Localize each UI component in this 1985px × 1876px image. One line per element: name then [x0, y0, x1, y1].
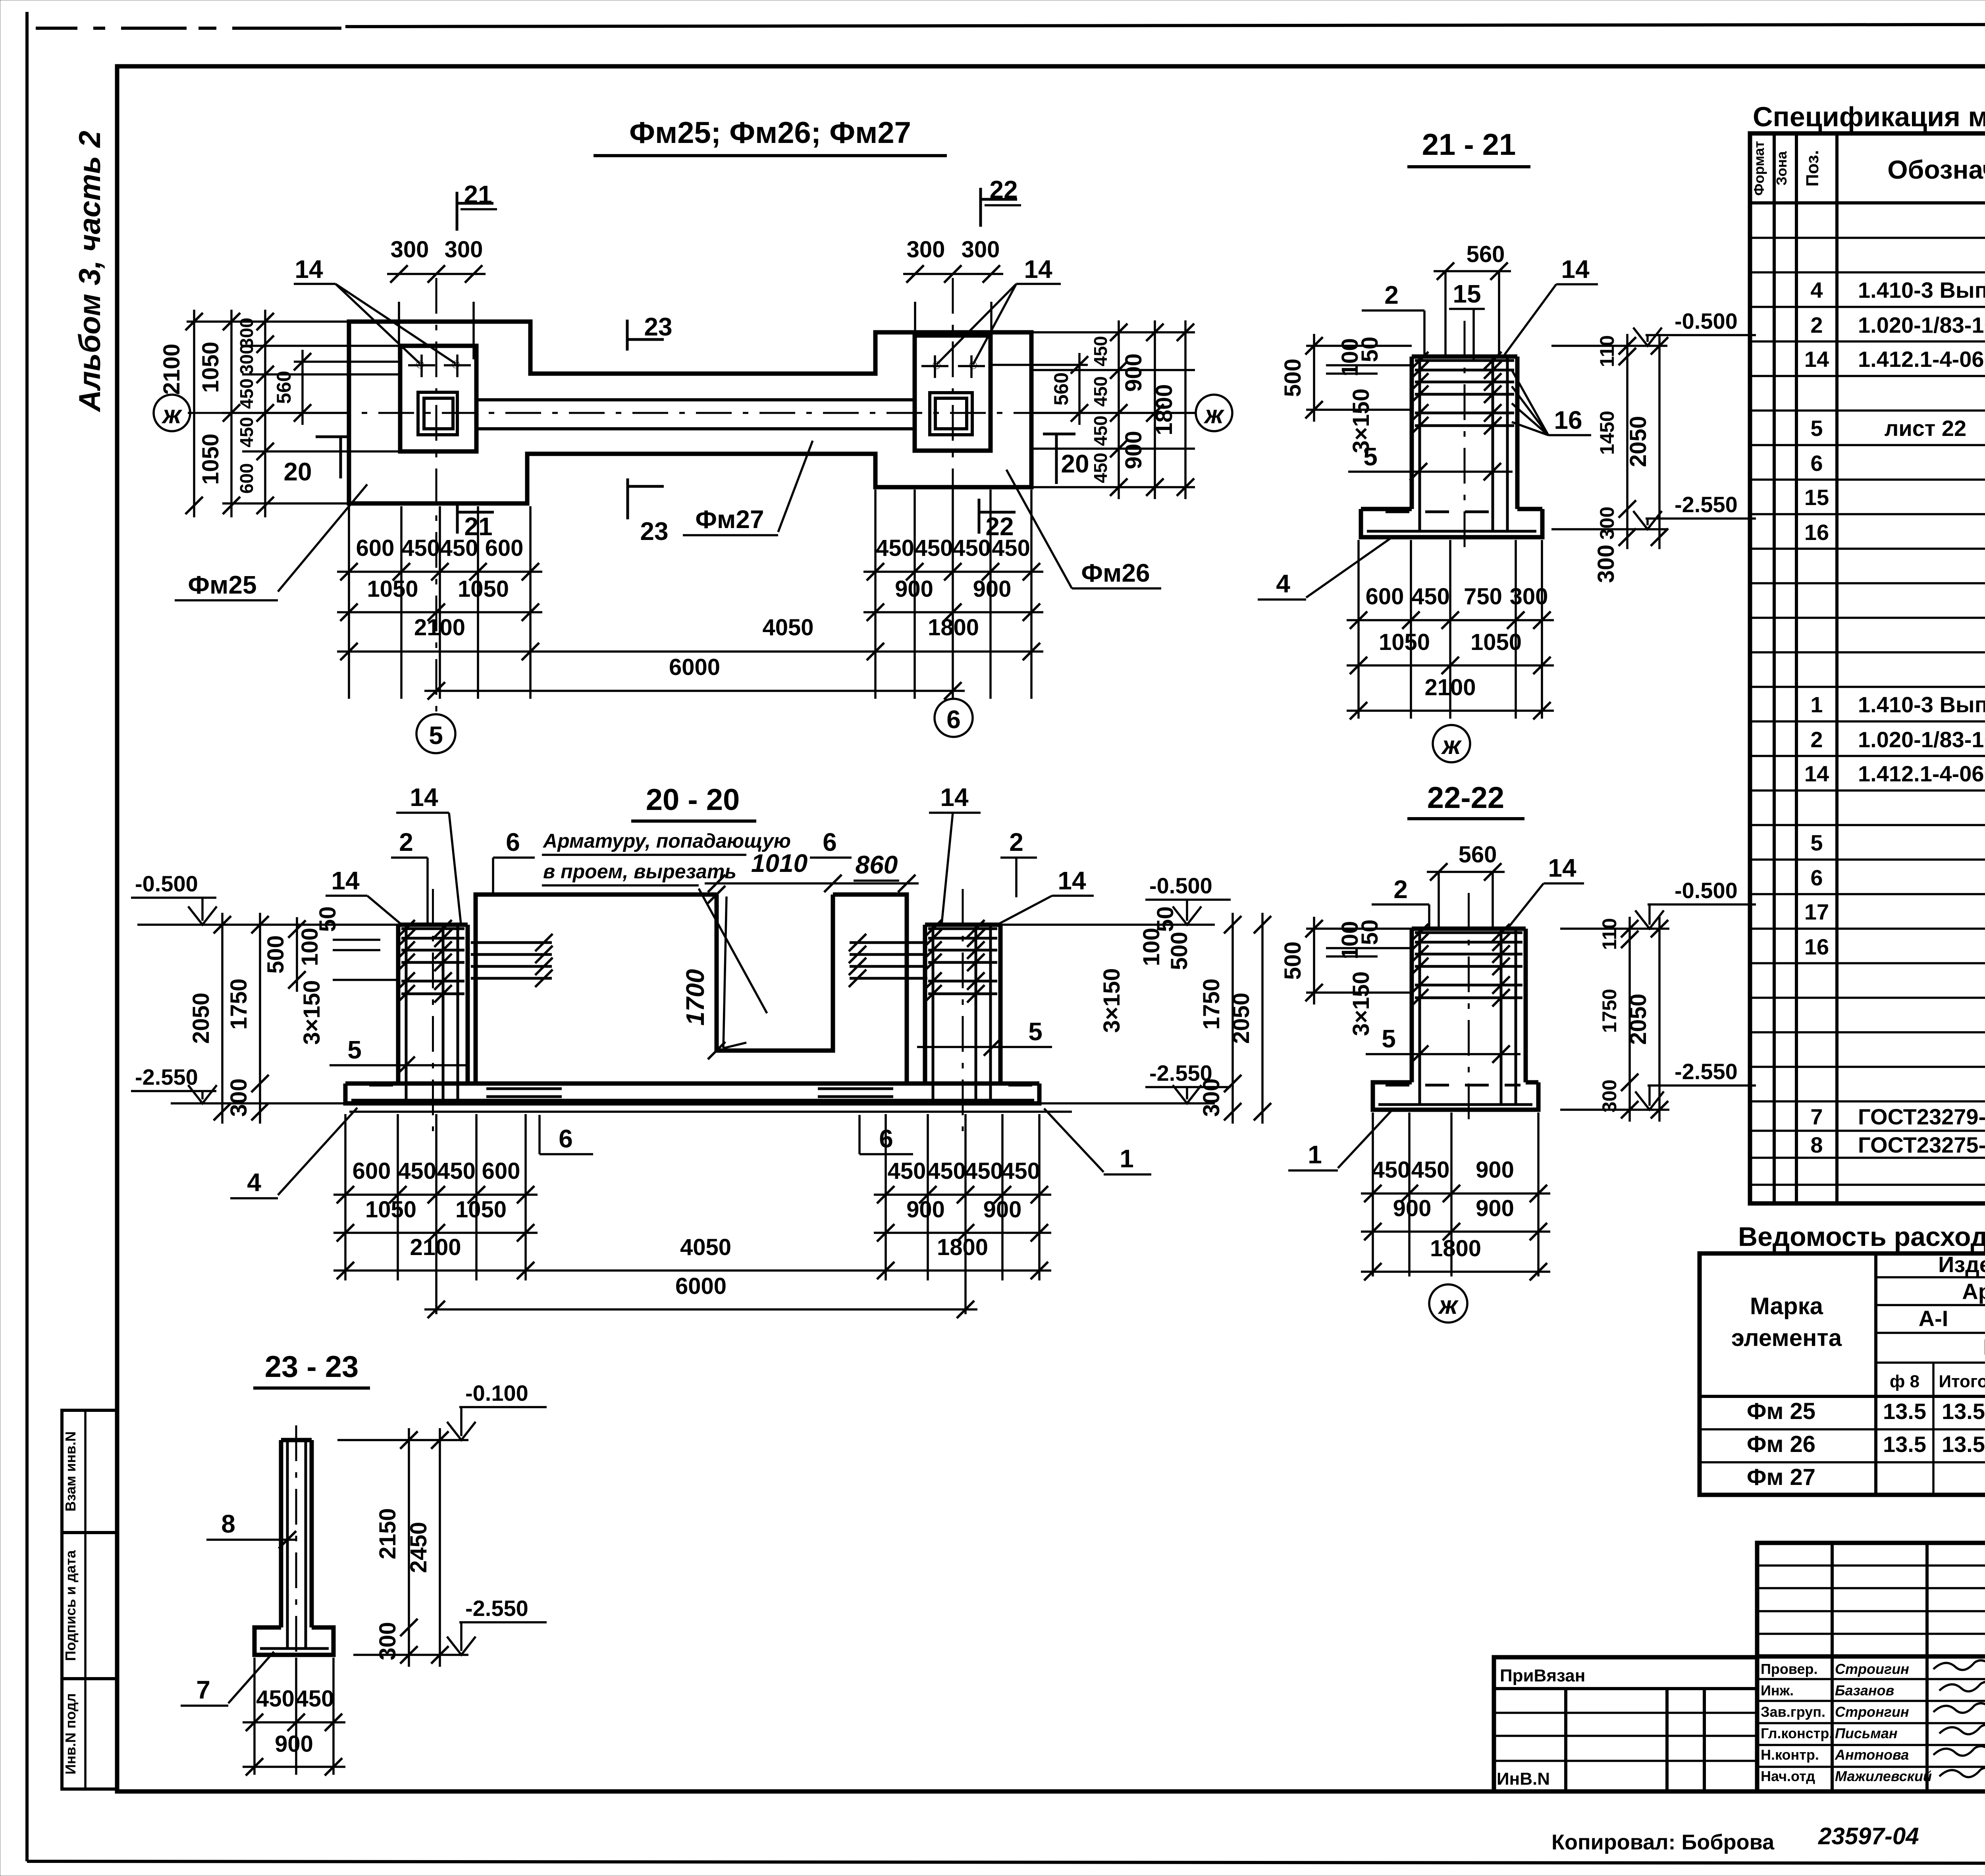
- 20-20 rebar bars into wall right: [850, 941, 927, 944]
- svg-text:ф 8: ф 8: [1890, 1372, 1919, 1391]
- svg-text:450: 450: [236, 417, 257, 447]
- plan: right vertical dimension chains: [1032, 331, 1195, 334]
- privyazan box: [1494, 1657, 1757, 1791]
- svg-text:А-I: А-I: [1919, 1306, 1948, 1331]
- svg-text:Н.контр.: Н.контр.: [1761, 1747, 1819, 1763]
- svg-text:1: 1: [1308, 1140, 1322, 1169]
- svg-text:450: 450: [1002, 1158, 1040, 1184]
- svg-text:1050: 1050: [455, 1197, 507, 1222]
- svg-text:1750: 1750: [1598, 989, 1621, 1033]
- svg-text:7: 7: [1810, 1104, 1823, 1129]
- svg-text:лист 22: лист 22: [1885, 416, 1966, 441]
- svg-text:600: 600: [485, 535, 524, 561]
- svg-text:23 - 23: 23 - 23: [265, 1350, 359, 1384]
- svg-text:Фм26: Фм26: [1081, 559, 1150, 587]
- svg-text:ж: ж: [1441, 731, 1462, 760]
- 20-20 left small dims: [333, 939, 380, 941]
- svg-text:Строигин: Строигин: [1835, 1661, 1909, 1677]
- svg-text:900: 900: [275, 1731, 313, 1757]
- plan: crosses right pedestal: [921, 365, 948, 367]
- svg-text:6: 6: [559, 1124, 573, 1153]
- plan: small crosses on left pedestal: [408, 364, 435, 366]
- svg-text:13.5: 13.5: [1883, 1432, 1926, 1457]
- svg-text:ГОСТ 5781-82: ГОСТ 5781-82: [1983, 1334, 1985, 1359]
- 22-22 level -2.550: [1560, 1109, 1669, 1111]
- svg-text:2: 2: [1810, 727, 1823, 752]
- plan: section mark 22 top: [979, 188, 982, 227]
- svg-text:Спецификация монолитных фундам: Спецификация монолитных фундаментов Фм25…: [1753, 101, 1985, 132]
- plan: 560 dim right: [992, 364, 1088, 366]
- svg-text:3×150: 3×150: [1348, 972, 1374, 1036]
- svg-text:Зона: Зона: [1773, 151, 1790, 185]
- svg-text:Фм25; Фм26; Фм27: Фм25; Фм26; Фм27: [629, 116, 911, 150]
- svg-text:300: 300: [391, 237, 429, 262]
- vedomost table frame: [1700, 1253, 1985, 1495]
- 21-21 axis circle Zh: [1433, 725, 1470, 762]
- svg-text:900: 900: [1476, 1157, 1514, 1183]
- svg-text:-2.550: -2.550: [1675, 1059, 1738, 1084]
- svg-text:-0.500: -0.500: [1675, 878, 1738, 903]
- svg-text:Базанов: Базанов: [1835, 1682, 1894, 1699]
- svg-text:20: 20: [283, 457, 312, 486]
- svg-text:14: 14: [1804, 347, 1829, 372]
- svg-text:4050: 4050: [762, 615, 813, 640]
- title block vertical lines left part: [1831, 1543, 1834, 1791]
- svg-text:1050: 1050: [198, 341, 224, 393]
- 22-22 level -0.500: [1560, 927, 1669, 930]
- svg-text:Фм 27: Фм 27: [1747, 1464, 1815, 1490]
- svg-text:1050: 1050: [365, 1197, 416, 1222]
- svg-text:21: 21: [464, 180, 492, 209]
- 20-20 note leader into opening: [699, 889, 767, 1013]
- svg-text:860: 860: [856, 850, 898, 879]
- svg-text:Формат: Формат: [1751, 141, 1767, 196]
- svg-text:300: 300: [236, 318, 257, 348]
- sheet outer border left: [25, 12, 29, 1861]
- svg-text:13.5: 13.5: [1942, 1432, 1985, 1457]
- svg-text:6: 6: [946, 705, 961, 734]
- svg-text:50: 50: [315, 906, 341, 932]
- svg-text:600: 600: [236, 463, 257, 494]
- svg-text:560: 560: [1467, 241, 1505, 267]
- svg-text:ИнВ.N: ИнВ.N: [1497, 1769, 1550, 1789]
- svg-text:100: 100: [297, 928, 323, 966]
- svg-text:14: 14: [295, 255, 323, 283]
- svg-text:560: 560: [1050, 372, 1072, 405]
- plan: vertical axis 6: [952, 278, 954, 699]
- svg-text:14: 14: [331, 866, 360, 895]
- svg-text:16: 16: [1804, 934, 1829, 959]
- svg-text:900: 900: [1393, 1195, 1432, 1221]
- svg-text:22-22: 22-22: [1427, 781, 1504, 815]
- svg-text:1700: 1700: [681, 969, 709, 1026]
- plan: section mark 20 right: [1043, 433, 1075, 436]
- svg-text:5: 5: [1810, 416, 1823, 441]
- svg-text:15: 15: [1453, 280, 1481, 308]
- svg-text:Антонова: Антонова: [1835, 1747, 1909, 1763]
- 20-20 label 6 bottom right: [858, 1115, 861, 1154]
- svg-text:17: 17: [1804, 899, 1829, 924]
- plan: 2100/4050/1800 chain: [337, 650, 1043, 653]
- svg-text:Взам инв.N: Взам инв.N: [62, 1431, 79, 1512]
- 20-20 level -0.500 right: [1000, 924, 1215, 926]
- svg-text:450: 450: [965, 1158, 1003, 1184]
- 23-23 level -0.100: [337, 1439, 468, 1441]
- svg-text:50: 50: [1357, 920, 1383, 945]
- svg-text:14: 14: [1804, 761, 1829, 786]
- svg-text:450: 450: [927, 1158, 966, 1184]
- plan: section mark 21 bottom: [456, 502, 459, 534]
- plan: 560 dim left: [294, 361, 401, 363]
- svg-text:20 - 20: 20 - 20: [646, 783, 740, 817]
- svg-text:300: 300: [962, 237, 1000, 262]
- svg-text:900: 900: [983, 1197, 1022, 1222]
- svg-text:22: 22: [989, 175, 1018, 204]
- svg-text:2: 2: [1810, 312, 1823, 337]
- svg-text:500: 500: [263, 935, 289, 974]
- svg-text:23597-04: 23597-04: [1818, 1823, 1919, 1849]
- 20-20 level -2.550 right: [1039, 1102, 1215, 1105]
- svg-text:1010: 1010: [751, 849, 807, 877]
- 20-20 bottom dim chains: [344, 1114, 347, 1280]
- svg-text:14: 14: [1024, 255, 1052, 283]
- 20-20 label 6 bottom left: [538, 1115, 541, 1154]
- plan: left vertical dimension chains: [187, 320, 351, 323]
- svg-text:450: 450: [437, 1158, 476, 1184]
- svg-text:Альбом 3, часть 2: Альбом 3, часть 2: [73, 131, 107, 413]
- 22-22 right dim chains: [1628, 917, 1631, 1122]
- svg-text:300: 300: [226, 1078, 252, 1117]
- svg-text:1750: 1750: [1199, 978, 1224, 1030]
- svg-text:1800: 1800: [928, 615, 979, 640]
- plan: horizontal axis Zh: [188, 412, 1196, 414]
- svg-text:500: 500: [1280, 359, 1306, 397]
- svg-text:300: 300: [445, 237, 483, 262]
- svg-text:2: 2: [1009, 828, 1023, 856]
- svg-text:Инв.N подл: Инв.N подл: [62, 1693, 79, 1775]
- svg-text:450: 450: [952, 535, 991, 561]
- svg-text:8: 8: [221, 1510, 235, 1538]
- svg-text:1800: 1800: [937, 1234, 988, 1260]
- svg-text:1.410-3 Вып.1: 1.410-3 Вып.1: [1858, 692, 1985, 717]
- 20-20 wall box outline with opening: [476, 895, 907, 1082]
- svg-text:23: 23: [644, 312, 672, 341]
- svg-text:ж: ж: [1203, 400, 1224, 429]
- svg-text:500: 500: [1166, 932, 1192, 970]
- svg-text:4050: 4050: [680, 1234, 731, 1260]
- svg-text:2: 2: [1393, 875, 1408, 904]
- 23-23 footing: [254, 1627, 333, 1655]
- svg-text:7: 7: [196, 1675, 210, 1704]
- svg-text:450: 450: [296, 1686, 334, 1712]
- svg-text:1.412.1-4-060: 1.412.1-4-060: [1858, 347, 1985, 372]
- svg-text:5: 5: [1363, 442, 1378, 471]
- svg-text:600: 600: [1366, 584, 1404, 609]
- svg-text:450: 450: [401, 535, 440, 561]
- svg-text:Подпись и дата: Подпись и дата: [62, 1550, 79, 1661]
- svg-text:16: 16: [1804, 520, 1829, 545]
- plan: bottom dimension chains right pad: [874, 490, 877, 699]
- svg-text:Поз.: Поз.: [1803, 150, 1822, 187]
- svg-text:5: 5: [1382, 1024, 1396, 1053]
- svg-text:900: 900: [1121, 431, 1147, 469]
- svg-text:450: 450: [1090, 453, 1111, 483]
- svg-text:1050: 1050: [198, 434, 224, 485]
- svg-text:2100: 2100: [1424, 675, 1476, 700]
- plan: column axis circle 5: [416, 714, 455, 753]
- svg-text:300: 300: [1510, 584, 1548, 609]
- svg-text:16: 16: [1554, 406, 1582, 434]
- svg-text:450: 450: [1372, 1157, 1411, 1183]
- svg-text:13.5: 13.5: [1883, 1399, 1926, 1424]
- svg-text:900: 900: [973, 576, 1012, 602]
- svg-text:Обозначение: Обозначение: [1887, 155, 1985, 184]
- svg-text:560: 560: [1459, 842, 1497, 868]
- svg-text:600: 600: [353, 1158, 391, 1184]
- svg-text:450: 450: [1411, 584, 1450, 609]
- svg-text:450: 450: [236, 378, 257, 409]
- svg-text:1050: 1050: [458, 576, 509, 602]
- 22-22 bottom dim chains: [1372, 1112, 1374, 1276]
- plan: 6000 chain: [424, 690, 965, 692]
- svg-text:50: 50: [1152, 906, 1178, 932]
- plan: bottom dimension chains left pad: [348, 506, 350, 699]
- 21-21 bottom dim chains: [1357, 540, 1360, 719]
- svg-text:300: 300: [1593, 545, 1619, 583]
- svg-text:900: 900: [895, 576, 933, 602]
- svg-text:2: 2: [399, 828, 413, 856]
- svg-text:2100: 2100: [159, 343, 185, 395]
- 22-22 column with rebar: [1410, 929, 1414, 1082]
- svg-text:3×150: 3×150: [1099, 968, 1125, 1033]
- svg-text:300: 300: [236, 344, 257, 375]
- svg-text:4: 4: [1276, 569, 1290, 598]
- svg-text:1: 1: [1120, 1144, 1134, 1173]
- svg-text:14: 14: [1561, 255, 1590, 283]
- svg-text:-0.500: -0.500: [1149, 873, 1212, 898]
- 23-23 bottom dims: [253, 1658, 256, 1775]
- 20-20 opening (proyom): [717, 895, 833, 1051]
- svg-text:2150: 2150: [375, 1508, 401, 1559]
- svg-text:450: 450: [888, 1158, 926, 1184]
- svg-text:450: 450: [992, 535, 1030, 561]
- svg-text:1800: 1800: [1430, 1236, 1481, 1261]
- svg-text:Марка: Марка: [1750, 1293, 1823, 1319]
- svg-text:Изделия арматурные: Изделия арматурные: [1938, 1252, 1985, 1277]
- sheet outer border top (dashed): [36, 27, 77, 30]
- svg-text:Фм 26: Фм 26: [1747, 1431, 1815, 1457]
- svg-text:-2.550: -2.550: [465, 1596, 528, 1621]
- 23-23 right dims: [408, 1428, 410, 1667]
- svg-text:1450: 1450: [1596, 411, 1618, 455]
- svg-text:ж: ж: [1438, 1291, 1459, 1319]
- 21-21 footing: [1361, 509, 1542, 537]
- 22-22 left extensions and dims: [1306, 927, 1412, 930]
- svg-text:2050: 2050: [1228, 993, 1254, 1044]
- svg-text:50: 50: [1357, 337, 1383, 362]
- svg-text:3×150: 3×150: [299, 980, 325, 1045]
- svg-text:в проем, вырезать: в проем, вырезать: [543, 860, 736, 883]
- svg-text:110: 110: [1598, 918, 1621, 950]
- 20-20 level -2.550 left: [171, 1102, 345, 1105]
- svg-text:21 - 21: 21 - 21: [1422, 128, 1516, 162]
- svg-text:300: 300: [375, 1622, 401, 1660]
- plan: column axis circle 6: [935, 699, 973, 737]
- 21-21 column with rebar: [1410, 357, 1414, 509]
- svg-text:1050: 1050: [1379, 629, 1430, 655]
- svg-text:Провер.: Провер.: [1761, 1661, 1818, 1677]
- svg-text:элемента: элемента: [1731, 1325, 1842, 1351]
- svg-text:450: 450: [440, 535, 478, 561]
- svg-text:6000: 6000: [669, 654, 720, 680]
- svg-text:450: 450: [398, 1158, 436, 1184]
- svg-text:4: 4: [247, 1168, 261, 1197]
- plan: section mark 20 left: [316, 436, 348, 438]
- svg-text:6: 6: [1810, 865, 1823, 890]
- 21-21 left extensions and dims: [1306, 345, 1412, 347]
- svg-text:2050: 2050: [1625, 993, 1651, 1045]
- svg-text:1.020-1/83-10.3.0-01: 1.020-1/83-10.3.0-01: [1858, 727, 1985, 752]
- svg-text:900: 900: [1121, 353, 1147, 392]
- svg-text:Итого: Итого: [1939, 1372, 1985, 1391]
- svg-text:-0.500: -0.500: [1675, 308, 1738, 334]
- sheet outer border bottom: [27, 1861, 1985, 1863]
- svg-text:ж: ж: [161, 400, 182, 429]
- plan: left anchor box: [418, 392, 457, 435]
- svg-text:450: 450: [876, 535, 914, 561]
- 23-23 level -2.550: [353, 1654, 468, 1656]
- plan: 300/300 dim left: [398, 302, 400, 359]
- left stamp boxes: [62, 1410, 117, 1789]
- svg-text:450: 450: [1090, 336, 1111, 366]
- 20-20 rebar bars into wall left: [471, 941, 552, 944]
- 20-20 level -0.500 left: [137, 924, 398, 926]
- svg-text:-2.550: -2.550: [1675, 492, 1738, 517]
- svg-text:2050: 2050: [188, 993, 214, 1044]
- svg-text:14: 14: [1058, 866, 1086, 895]
- svg-text:750: 750: [1464, 584, 1502, 609]
- plan: right anchor box: [930, 393, 972, 435]
- svg-text:Стронгин: Стронгин: [1835, 1704, 1909, 1720]
- 20-20 rebar bars at footing (pos 6) left: [486, 1087, 562, 1090]
- svg-text:4: 4: [1810, 278, 1823, 303]
- title block outer: [1757, 1543, 1985, 1791]
- svg-text:6000: 6000: [675, 1273, 727, 1299]
- plan: right pedestal: [915, 335, 991, 451]
- 20-20 left dim chains: [221, 913, 224, 1124]
- svg-text:Нач.отд: Нач.отд: [1761, 1768, 1815, 1784]
- plan: vertical axis 5: [436, 278, 437, 714]
- plan: section mark 21 top: [456, 192, 459, 231]
- svg-text:20: 20: [1061, 449, 1089, 478]
- plan: left pad Fm25 outline: [349, 322, 1031, 503]
- plan: section mark 23 top: [626, 320, 629, 351]
- 20-20 right column: [923, 925, 927, 1084]
- svg-text:14: 14: [1548, 854, 1576, 882]
- svg-text:450: 450: [915, 535, 953, 561]
- svg-text:100: 100: [1139, 928, 1164, 966]
- svg-text:Письман: Письман: [1835, 1725, 1898, 1741]
- svg-text:900: 900: [1476, 1195, 1514, 1221]
- svg-text:1800: 1800: [1151, 384, 1177, 435]
- plan: beam edges: [476, 398, 915, 401]
- plan: section mark 23 bottom: [626, 478, 629, 519]
- svg-text:600: 600: [482, 1158, 520, 1184]
- svg-text:-0.500: -0.500: [135, 871, 198, 896]
- svg-text:560: 560: [273, 371, 295, 404]
- plan: axis circles Zh: [154, 395, 190, 431]
- svg-text:13.5: 13.5: [1942, 1399, 1985, 1424]
- 20-20 rebar bars at footing (pos 6) right: [818, 1087, 893, 1090]
- 20-20 left column: [396, 925, 401, 1084]
- 20-20 hidden dash line in footing: [369, 1084, 393, 1087]
- svg-text:450: 450: [256, 1686, 295, 1712]
- 23-23 column: [281, 1440, 312, 1627]
- 22-22 footing (extends left): [1373, 1082, 1538, 1110]
- svg-text:Мажилевский: Мажилевский: [1835, 1768, 1932, 1784]
- svg-text:2100: 2100: [414, 615, 465, 640]
- svg-text:300: 300: [1199, 1078, 1224, 1117]
- plan: 300/300 dim right: [914, 302, 916, 360]
- svg-text:2450: 2450: [406, 1522, 432, 1573]
- svg-text:300: 300: [1596, 507, 1618, 540]
- svg-text:450: 450: [1090, 416, 1111, 446]
- title block signature rows: [1757, 1678, 1985, 1680]
- 21-21 level -2.550: [1551, 528, 1667, 530]
- svg-text:8: 8: [1810, 1132, 1823, 1157]
- svg-text:5: 5: [429, 721, 443, 750]
- svg-text:Фм25: Фм25: [188, 571, 256, 599]
- 21-21 right dim chains: [1626, 334, 1628, 549]
- svg-text:Ведомость расхода стали на оди: Ведомость расхода стали на один элемент,…: [1738, 1222, 1985, 1252]
- svg-text:6: 6: [1810, 451, 1823, 476]
- svg-text:1.020-1/83-10.3.0.01: 1.020-1/83-10.3.0.01: [1858, 312, 1985, 337]
- svg-text:1.410-3 Вып.1: 1.410-3 Вып.1: [1858, 278, 1985, 303]
- 21-21 level -0.500: [1551, 345, 1667, 347]
- svg-text:Инж.: Инж.: [1761, 1682, 1794, 1699]
- svg-text:ГОСТ23275-85: ГОСТ23275-85: [1858, 1132, 1985, 1157]
- svg-text:6: 6: [823, 828, 837, 856]
- svg-text:1.412.1-4-060: 1.412.1-4-060: [1858, 761, 1985, 786]
- svg-text:1750: 1750: [226, 978, 252, 1030]
- 21-21 label 16 with fan: [1548, 434, 1591, 436]
- svg-text:1050: 1050: [1470, 629, 1522, 655]
- svg-text:300: 300: [1598, 1080, 1621, 1112]
- spec table frame: [1750, 133, 1985, 1203]
- svg-text:-0.100: -0.100: [465, 1380, 528, 1406]
- svg-text:5: 5: [1810, 830, 1823, 855]
- svg-text:6: 6: [506, 828, 520, 856]
- svg-text:23: 23: [640, 517, 668, 546]
- svg-text:300: 300: [907, 237, 945, 262]
- svg-text:450: 450: [1090, 376, 1111, 407]
- svg-text:2100: 2100: [410, 1234, 461, 1260]
- svg-text:110: 110: [1596, 335, 1618, 367]
- svg-text:Фм 25: Фм 25: [1747, 1398, 1815, 1424]
- svg-text:Копировал: Боброва: Копировал: Боброва: [1551, 1830, 1775, 1854]
- svg-text:5: 5: [347, 1035, 362, 1064]
- plan: left pedestal: [400, 346, 476, 451]
- svg-text:900: 900: [906, 1197, 945, 1222]
- svg-text:Зав.груп.: Зав.груп.: [1761, 1704, 1825, 1720]
- 22-22 axis circle Zh: [1429, 1284, 1467, 1323]
- svg-text:600: 600: [356, 535, 395, 561]
- svg-text:1050: 1050: [367, 576, 418, 602]
- svg-text:15: 15: [1804, 485, 1829, 510]
- svg-text:ГОСТ23279-85: ГОСТ23279-85: [1858, 1104, 1985, 1129]
- svg-text:450: 450: [1411, 1157, 1450, 1183]
- svg-text:Арматура класса: Арматура класса: [1962, 1279, 1985, 1304]
